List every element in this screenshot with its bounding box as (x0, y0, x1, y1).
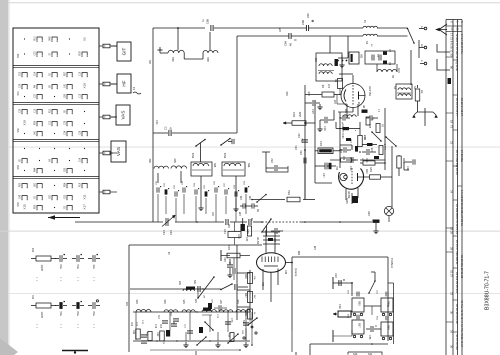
electrolytic row 1 capacitor C61 (72, 254, 84, 270)
switch unit section divider 1 (13, 66, 99, 68)
coil S33 (136, 299, 151, 340)
svg-text:C48: C48 (315, 245, 317, 250)
svg-text:C53: C53 (35, 51, 37, 56)
svg-text:24 26 28a: 24 26 28a (460, 150, 464, 162)
earth bracket 1 (437, 44, 450, 52)
capacitor C44 series (223, 219, 228, 234)
switch S18 (261, 218, 272, 236)
label det (257, 208, 260, 212)
switch contact b5r2c2 (36, 196, 42, 201)
svg-text:C33: C33 (349, 166, 352, 171)
switch contact b2r2c4 (66, 85, 72, 90)
wire V3 column (291, 263, 293, 331)
svg-text:R10: R10 (365, 169, 368, 174)
svg-text:S60: S60 (315, 57, 318, 62)
switch contact b5r2c4 (66, 196, 72, 201)
junction dot top bus (177, 27, 179, 29)
resistor R9 (358, 136, 366, 147)
switch unit pin 5 (99, 190, 117, 194)
resistor R57 BL (352, 315, 364, 334)
table col1 text 1 (450, 33, 454, 57)
capacitor C26 dark (359, 101, 368, 113)
svg-text:S32: S32 (65, 194, 67, 199)
switch contact b5r3c4 (66, 206, 72, 211)
filter cap C8 dark (383, 61, 391, 66)
transformer S3 S4 (393, 84, 416, 99)
wire trafo drops (158, 171, 236, 185)
wire audio block top (129, 244, 262, 246)
switch S20 (368, 272, 376, 294)
tone cell TR terminals (382, 313, 391, 315)
switch contact b4r2c5 (81, 159, 87, 164)
capacitor C30 dark (336, 127, 355, 139)
resistor R56 TR (381, 292, 393, 312)
scan mark bottom-left (62, 351, 88, 354)
wire mid vertical (236, 36, 238, 133)
svg-text:C15: C15 (80, 93, 82, 98)
resistor R46 (244, 273, 253, 284)
svg-text:C53: C53 (335, 273, 338, 278)
wire S59-S58 link (184, 53, 203, 59)
svg-text:C43: C43 (250, 195, 252, 200)
resistor R41 vertical (245, 226, 252, 242)
switch contact label b4r2c1 (20, 158, 22, 162)
table col3 number 1 (460, 34, 464, 54)
svg-text:R16: R16 (80, 182, 82, 187)
svg-text:C16: C16 (80, 71, 82, 76)
wire tone bottom left (296, 344, 310, 355)
switch contact b3r1c1 (21, 110, 27, 115)
switch contact label b2r2c1 (20, 83, 22, 88)
wire V3 column extend (291, 330, 293, 352)
resistor R10 (360, 161, 385, 174)
table col1 text 13 (450, 345, 454, 349)
wire V3 anode out (286, 262, 293, 264)
coil S62 (149, 158, 168, 169)
table col2 text 2 (455, 98, 459, 116)
scan edge left grey strip (0, 0, 10, 355)
svg-text:S35: S35 (183, 299, 186, 304)
switch band 2 designator (17, 91, 20, 96)
svg-text:C45: C45 (240, 211, 242, 216)
svg-text:S61: S61 (360, 54, 363, 59)
wire IF right vertical (384, 108, 386, 170)
ground row under IF cans (198, 185, 238, 212)
svg-text:R55: R55 (358, 301, 361, 306)
capacitor C84 IF decoupling (194, 182, 199, 222)
svg-text:R6: R6 (321, 84, 325, 88)
capacitor C64 on second bus (284, 33, 297, 46)
switch contact dot b1r1c4 (69, 38, 70, 39)
capacitor C85 IF decoupling (204, 184, 209, 214)
capacitor C86 IF decoupling (214, 180, 219, 222)
switch contact label b3r2c3 (50, 120, 52, 125)
svg-text:C15: C15 (311, 109, 314, 114)
table col1 divider 2 (446, 112, 453, 114)
capacitor C25 (366, 115, 378, 129)
junction dots AGC (196, 221, 341, 223)
resistor R8 vertical (366, 117, 373, 125)
switch S16 (196, 336, 207, 346)
switch contact b3r1c2 (36, 110, 42, 115)
earth bracket 2 (437, 59, 450, 70)
switch contact label b4r3c4 (65, 167, 67, 172)
svg-text:R10: R10 (50, 108, 52, 113)
label R21 area (286, 91, 311, 96)
capacitor C42 pair (240, 195, 258, 209)
wire audio mid horizontal (130, 288, 221, 290)
svg-text:C27: C27 (322, 173, 325, 178)
svg-text:R20: R20 (286, 91, 289, 96)
capacitor C71 (158, 314, 168, 323)
capacitor C68 series top (206, 19, 214, 31)
svg-text:C22: C22 (298, 133, 301, 138)
svg-text:X15: X15 (23, 204, 27, 210)
switch contact label b5r1c1 (20, 182, 22, 187)
svg-text:R45: R45 (261, 282, 263, 287)
svg-text:C69: C69 (301, 20, 305, 25)
module box VAS2 (111, 141, 126, 162)
wire S59 lead (160, 52, 168, 54)
switch band 1 designator (17, 53, 20, 58)
switch contact dot b4r1c3 (54, 148, 55, 149)
svg-text:C36: C36 (406, 166, 409, 171)
svg-text:10 13 14 15 17: 10 13 14 15 17 (455, 98, 459, 116)
switch contact label b3r3c2 (35, 130, 37, 135)
table col1 divider 5 (446, 251, 453, 253)
svg-text:C61: C61 (162, 230, 166, 235)
capacitor C73 (225, 318, 233, 324)
switch contact b2r1c4 (66, 73, 72, 78)
coil S59 (168, 50, 184, 62)
svg-text:S51: S51 (17, 91, 20, 96)
svg-text:40 41 43 42a: 40 41 43 42a (455, 334, 459, 350)
switch S13 on mid wire (220, 283, 248, 290)
switch contact label b1r2c2 (35, 51, 37, 56)
svg-text:C29: C29 (342, 156, 344, 161)
svg-text:VAS: VAS (121, 111, 126, 120)
coil S1b aerial top (363, 19, 377, 28)
svg-text:S26: S26 (65, 93, 67, 98)
svg-text:14-14 18 17 17a: 14-14 18 17 17a (460, 34, 464, 54)
svg-text:16.5: 16.5 (397, 68, 400, 73)
svg-text:R38: R38 (80, 51, 82, 56)
svg-text:26 24 26a 25a 18 20: 26 24 26a 25a 18 20 (455, 150, 459, 175)
capacitor C45 dark (237, 218, 245, 239)
switch contact dot b2r3c1 (24, 96, 25, 97)
label S-row (141, 298, 243, 334)
svg-text:B3X88U-70-71-7: B3X88U-70-71-7 (485, 271, 491, 310)
resistor R26 vertical (397, 155, 405, 176)
squiggle F4 (132, 86, 141, 94)
wire tone right top (388, 282, 394, 284)
table side mark (448, 78, 452, 84)
capacitor C81 IF decoupling (164, 182, 169, 214)
resistor R2 vertical (415, 85, 424, 106)
switch contact label b2r2c2 (35, 84, 37, 88)
svg-text:22 25 27 28a 30a 31: 22 25 27 28a 30a 31 (455, 240, 459, 265)
switch contact label b1r2c3 (50, 52, 52, 56)
resistor R6 (305, 84, 341, 97)
switch unit section divider 3 (13, 140, 99, 142)
electrolytic row 2 capacitor C65 (88, 300, 100, 317)
svg-text:R44: R44 (35, 167, 37, 172)
svg-text:C40: C40 (245, 237, 247, 242)
headphone jack J1 (384, 204, 393, 216)
table col1 divider 1 (446, 56, 453, 58)
switch contact label b4r2c5 (80, 157, 82, 162)
switch contact dot b4r1c5 (84, 148, 85, 149)
wire pin1 to GIT (111, 45, 117, 47)
resistor R13A (227, 245, 250, 258)
coil S35 (182, 299, 195, 312)
switch unit section divider 4 (13, 177, 99, 179)
switch contact b1r2c3 (51, 52, 57, 57)
switch contact mark b5r2c5 (83, 194, 87, 199)
coil S64 (343, 108, 356, 117)
scan corner grey bottom-left (0, 338, 18, 355)
switch contact label b3r3c4 (65, 130, 67, 135)
cap C51 label (295, 138, 304, 150)
svg-text:C59: C59 (20, 71, 22, 76)
switch contact label b5r1c4 (65, 182, 67, 187)
electrolytic row 1 capacitor C60 (55, 254, 67, 270)
table col3 number 6 (460, 300, 464, 348)
switch contact dot b4r1c1 (24, 148, 25, 149)
svg-text:10 12 14 15 17: 10 12 14 15 17 (460, 98, 464, 116)
svg-text:29 31a 33 35 34a: 29 31a 33 35 34a (455, 272, 459, 293)
svg-text:S68: S68 (180, 280, 182, 285)
svg-text:R40: R40 (237, 234, 240, 239)
table col1 text 10 (450, 292, 454, 296)
switch contact label b5r2c1 (20, 194, 22, 199)
wire AGC bus (75, 221, 372, 223)
switch contact dot b1r2c4 (69, 53, 70, 54)
table col2 divider 7 (453, 267, 458, 269)
svg-text:40: 40 (289, 43, 293, 46)
capacitor C28 dark (362, 134, 377, 146)
switch contact b5r2c1 (21, 196, 27, 201)
capacitor C24 (340, 115, 350, 129)
switch contact mark b1r1c5 (83, 37, 87, 41)
module box HF (117, 74, 131, 93)
electrolytic row 2 resistor R71 (31, 303, 56, 319)
svg-text:R37: R37 (228, 223, 231, 228)
label misc noise (167, 218, 317, 255)
table col1 text 11 (450, 311, 454, 315)
svg-text:C36: C36 (20, 83, 22, 88)
junction dots IF2 (339, 117, 385, 150)
switch contact label b5r2c4 (65, 194, 67, 199)
svg-text:C16: C16 (323, 126, 326, 131)
junction dots S60 (337, 60, 347, 62)
table col3 number 2 (460, 98, 464, 116)
switch contact label b1r2c5 (80, 51, 82, 56)
wire output bus (292, 257, 388, 263)
table col1 divider 6 (446, 321, 453, 323)
wire second top bus (237, 35, 407, 37)
label electro rows (33, 247, 35, 299)
capacitor C87 IF decoupling (224, 182, 229, 214)
table col2 text 7 (455, 304, 459, 324)
switch unit SK outline (13, 28, 99, 213)
wire jack ground (388, 216, 390, 222)
svg-text:UL84: UL84 (256, 237, 260, 245)
coil S63 (171, 158, 187, 169)
resistor R52 (287, 190, 300, 202)
table col2 text 8 (455, 334, 459, 350)
filter cap C5 (379, 55, 381, 61)
switch contact b3r3c4 (66, 132, 72, 137)
svg-text:4V: 4V (167, 252, 169, 255)
IF can 1 (191, 162, 216, 176)
switch band 5 designator (17, 202, 20, 207)
switch contact b2r3c2 (36, 95, 42, 100)
switch S19 arm (197, 276, 215, 299)
svg-text:23: 23 (450, 141, 454, 145)
svg-text:C2C: C2C (155, 120, 158, 125)
antenna terminal 1 (419, 27, 427, 30)
filter cap C4 (372, 54, 379, 61)
svg-text:VAS: VAS (116, 147, 121, 156)
svg-text:R36: R36 (35, 120, 37, 125)
svg-text:S54: S54 (17, 202, 20, 207)
switch contact b2r2c3 (51, 85, 57, 90)
wire V1 grid feed (337, 95, 347, 104)
switch contact b1r1c3 (51, 37, 57, 42)
table col1 text 12 (450, 330, 454, 334)
switch contact label b3r3c5 (80, 130, 82, 135)
svg-text:64u: 64u (92, 312, 96, 317)
capacitor C78 series (198, 286, 204, 292)
svg-text:4V: 4V (250, 218, 252, 221)
svg-text:C44: C44 (223, 229, 226, 234)
capacitor C81 (171, 311, 179, 321)
terminal T2 (333, 330, 352, 342)
switch contact b3r3c5 (81, 132, 87, 137)
svg-text:S60: S60 (35, 182, 37, 187)
wire bottom stub (150, 344, 253, 351)
svg-text:17 21 8 9 28 12 30: 17 21 8 9 28 12 30 (450, 33, 454, 57)
capacitor C82 dark (199, 327, 203, 333)
table col1 text 5 (450, 141, 454, 145)
capacitor C31 (362, 149, 376, 163)
switch contact label b4r3c2 (35, 167, 37, 172)
electrolytic row 2 capacitor C63 (55, 301, 67, 317)
label V3 area (261, 270, 286, 287)
switch contact b2r1c3 (51, 73, 57, 78)
label PU/Band (390, 258, 394, 268)
wire IF left vertical (339, 112, 341, 168)
wire tone bottom (310, 343, 388, 345)
coil S34 (164, 299, 178, 312)
svg-text:S: S (450, 21, 454, 23)
svg-text:C47: C47 (273, 238, 275, 243)
svg-text:R12: R12 (130, 322, 132, 327)
switch contact label b2r3c5 (80, 93, 82, 98)
svg-text:C37: C37 (35, 93, 37, 98)
switch S6 arm (371, 131, 382, 142)
antenna terminal 2 (419, 40, 427, 55)
svg-text:C45: C45 (20, 194, 22, 199)
capacitor C2 series (164, 126, 173, 136)
table col1 text 8 (450, 247, 454, 251)
bandfilter coil S60b (318, 71, 334, 75)
scan fold line upper (8, 146, 500, 149)
capacitor C46 series (246, 219, 251, 234)
svg-text:64u: 64u (59, 265, 63, 270)
switch contact label b3r1c2 (35, 108, 37, 113)
svg-text:S34: S34 (164, 299, 167, 304)
terminal T1 (332, 277, 334, 289)
svg-text:R46: R46 (244, 274, 247, 279)
wire V1 top cap (339, 74, 353, 84)
resistor R58 BR (381, 316, 393, 336)
resistor R31 vertical (132, 329, 140, 339)
switch unit pin 1 (99, 44, 117, 48)
label left column (148, 60, 158, 125)
svg-text:S38: S38 (237, 299, 240, 304)
wire V2 right vertical (391, 155, 393, 204)
svg-text:S63: S63 (174, 158, 177, 163)
electrolytic row 1 capacitor C62 (88, 254, 100, 270)
svg-text:X19: X19 (83, 83, 87, 89)
resistor R37 (228, 222, 241, 245)
tube V1 pin leads (338, 104, 358, 118)
switch contact b3r1c4 (66, 110, 72, 115)
label stack values (253, 276, 255, 315)
switch contact label b3r1c4 (65, 109, 67, 113)
switch contact b1r1c2 (36, 37, 42, 42)
table col1 text 6 (450, 190, 454, 194)
wire mid-right smalls (404, 159, 415, 171)
svg-text:R32: R32 (156, 332, 159, 337)
resistor R12 horizontal (340, 148, 356, 162)
svg-text:30: 30 (450, 311, 454, 315)
wire audio inner vertical (236, 245, 238, 320)
switch contact b2r1c1 (21, 73, 27, 78)
svg-text:C34: C34 (372, 147, 374, 152)
switch contact label b3r1c3 (50, 108, 52, 113)
svg-text:R39: R39 (35, 204, 37, 209)
svg-text:C41: C41 (224, 257, 227, 262)
coil S1 aerial (363, 34, 377, 45)
svg-text:GIT: GIT (122, 47, 127, 55)
svg-text:S57: S57 (148, 60, 151, 65)
switch contact label b2r3c4 (65, 93, 67, 98)
table col2 divider 1 (453, 59, 458, 61)
wire coil drops (170, 312, 246, 340)
label V1 pins (341, 122, 356, 132)
svg-text:S52: S52 (17, 128, 20, 133)
tube V3 label (256, 237, 260, 245)
svg-text:S32: S32 (127, 301, 129, 306)
switch contact label b3r2c4 (65, 120, 67, 125)
capacitor C34 dark (372, 147, 379, 159)
resistor R21 with arrow (283, 111, 315, 125)
svg-text:C50: C50 (300, 150, 303, 155)
svg-text:33 25: 33 25 (450, 227, 454, 234)
svg-text:S28: S28 (65, 167, 67, 172)
tone cell BR terminals (382, 337, 391, 339)
wire bottom bus (133, 340, 250, 342)
tube V3 grid ladder (263, 230, 280, 253)
tube V3 cathode (264, 265, 278, 267)
tube V1 label (368, 86, 372, 96)
switch contact label b1r1c3 (50, 36, 52, 41)
svg-text:30A5: 30A5 (345, 198, 348, 204)
switch contact label b2r1c4 (65, 71, 67, 76)
